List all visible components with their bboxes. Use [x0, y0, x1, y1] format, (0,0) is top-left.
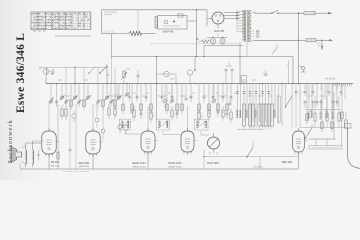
trimmer det2 [171, 84, 173, 99]
wire V2 top [92, 104, 94, 131]
svg-text:UKW VBr: UKW VBr [214, 30, 224, 33]
resistor (dial lamp dropper) [129, 31, 141, 35]
resistor mid at x=134 [133, 106, 135, 110]
resistor at x=227 [226, 84, 228, 110]
resistor at x=182 [181, 84, 183, 110]
IF transformer 2 [157, 119, 170, 130]
trimmer at x=119 [118, 84, 120, 100]
tone switch [306, 128, 313, 138]
capacitor at x=191 [190, 84, 192, 99]
screen supply rail [112, 56, 294, 58]
resistor mid at x=115 [114, 104, 116, 108]
svg-text:(RE 134): (RE 134) [51, 165, 60, 167]
resistor at x=177 [176, 84, 178, 110]
wire V4 top [187, 106, 189, 131]
right link h3 [308, 138, 336, 140]
pot mid at x=120 [119, 122, 121, 125]
resistor at x=71 [70, 84, 72, 106]
cap pair above bus [225, 68, 228, 70]
wire V1 cathode [48, 155, 50, 169]
coil at x=237.5 [237, 84, 239, 118]
band switch caps [236, 91, 239, 93]
right link h1 [305, 109, 340, 111]
pot mid at x=126 [125, 123, 127, 126]
resistor mid at x=209 [208, 106, 210, 110]
right column coils [308, 112, 310, 119]
wire IF2 to V4 [162, 132, 164, 135]
resistor at x=103 [102, 84, 104, 106]
svg-text:REN 1821: REN 1821 [78, 162, 90, 165]
switch at x=285.5 [285, 84, 287, 107]
resistor at x=115 [114, 84, 116, 106]
capacitor at x=111 [110, 84, 112, 104]
wires output [310, 138, 334, 140]
resistor at x=322 [321, 84, 323, 128]
dial lamps [211, 39, 216, 44]
wire V3 top [147, 106, 149, 131]
mains voltage taps [252, 11, 255, 13]
power transformer [245, 10, 247, 42]
trimmer at x=62 [61, 84, 63, 100]
trimmer at x=107 [106, 84, 108, 100]
wire V5 down [203, 150, 205, 169]
svg-text:RE 604: RE 604 [51, 161, 60, 164]
resistor at x=123 [122, 84, 124, 110]
resistor at x=342 [341, 84, 343, 118]
resistor at x=332 [331, 84, 333, 128]
capacitor mid at x=227 [226, 110, 228, 113]
wire V2 cathode [92, 155, 94, 169]
coil at x=327 [326, 84, 328, 118]
wire V6 cathode [298, 152, 300, 169]
switch bank at x=278.8 [278, 84, 280, 124]
right column caps row2 [304, 100, 307, 102]
speaker wiring [22, 146, 26, 148]
resistor at x=250 [249, 84, 251, 122]
anode supply line with fuse Si2 [255, 39, 299, 41]
capacitor at x=172 [171, 84, 173, 99]
resistor at x=259.4 [258, 84, 260, 122]
transformer primary taps [238, 11, 242, 13]
component above bus [241, 76, 247, 83]
right link h2 [300, 127, 344, 129]
cord entry box [345, 124, 352, 129]
resistor at x=262.6 [262, 84, 264, 126]
coil at x=275 [274, 84, 276, 118]
resistor above bus [189, 76, 191, 84]
power line (heater feed) with fuse Si1 [255, 12, 272, 14]
dial drive frame [101, 10, 103, 34]
capacitor at x=204 [203, 84, 205, 99]
potentiometer P1 [123, 78, 125, 84]
resistor at x=268.6 [268, 84, 270, 126]
resistor mid at x=109 [108, 104, 110, 108]
ground marks [63, 170, 65, 172]
capacitor at x=56.5 [56, 84, 58, 104]
resistor mid at x=223 [222, 106, 224, 110]
faint heater line [150, 43, 240, 45]
resistor at x=244 [243, 84, 245, 122]
resistor mid at x=231 [230, 108, 232, 112]
wire V1 top [48, 104, 50, 131]
IF transformer 3 [195, 119, 209, 130]
tuning arrows [48, 97, 53, 102]
switch S2 [247, 147, 253, 157]
circle x103 [102, 106, 104, 129]
oscillator coupling [157, 73, 164, 75]
trimmer at x=75 [74, 84, 76, 100]
coil at x=240.6 [240, 84, 242, 118]
antenna line [39, 66, 107, 68]
resistor at x=265.6 [265, 84, 267, 122]
trimmer at x=51 [50, 84, 52, 104]
mains cord [348, 128, 360, 169]
svg-text:(REN 904): (REN 904) [79, 166, 90, 168]
output choke L2 [33, 150, 34, 164]
resistor at x=199 [198, 84, 200, 110]
svg-text:(+4,6V+0): (+4,6V+0) [325, 78, 335, 80]
coil at x=312 [311, 84, 313, 118]
svg-text:RGN 1064: RGN 1064 [207, 162, 219, 165]
phono jack [302, 66, 305, 69]
svg-text:RES 964: RES 964 [282, 160, 293, 164]
resistor at x=167 [166, 84, 168, 110]
resistor at x=307 [306, 84, 308, 120]
capacitor mid at x=141 [140, 110, 142, 113]
capacitor mid at x=218 [217, 108, 219, 111]
capacitor at x=223 [222, 84, 224, 99]
output choke L1 [26, 150, 27, 164]
svg-text:UKW-VBr: UKW-VBr [163, 31, 174, 34]
wire (mains drop) [298, 13, 300, 84]
resistor mid at x=62 [61, 105, 63, 109]
right column caps row1 [295, 90, 298, 92]
loudspeaker [11, 147, 22, 163]
capacitor at x=146 [145, 84, 147, 99]
capacitor mid at x=177 [176, 110, 178, 113]
trimmer at x=88 [87, 84, 89, 100]
chassis bus [46, 83, 353, 85]
table caption marks [33, 30, 36, 32]
wire x76 [75, 104, 77, 169]
coil at x=247 [246, 84, 248, 118]
wire IF1 to V3 [124, 132, 126, 135]
capacitor at x=137 [136, 84, 138, 99]
wire (ant) [74, 67, 76, 84]
faint annotations [126, 68, 130, 70]
resistor at x=218 [217, 84, 219, 110]
control box [158, 16, 188, 30]
capacitor at x=98 [97, 84, 99, 104]
wire at x=282 [281, 84, 283, 126]
ground return line [20, 168, 299, 170]
tube V6 RES964 [293, 131, 305, 152]
band switch bottom rail [237, 128, 263, 130]
resistor at x=209 [208, 84, 210, 110]
tube V5 diode [208, 137, 220, 149]
waveband switch 2 [89, 67, 95, 73]
resistor at x=271.9 [271, 84, 273, 122]
resistor at x=141 [140, 84, 142, 110]
rectifier tube RGN1064 [212, 12, 224, 24]
wire V3 cathode [147, 152, 149, 169]
resistor mid at x=172 [171, 106, 173, 110]
tube V1 RENS1264 [42, 131, 56, 154]
wire below table [55, 35, 91, 37]
tube V3 RENS1254 [141, 131, 155, 152]
wire right of V1 [57, 104, 59, 169]
output terminal strip [309, 146, 342, 149]
svg-text:RENS 1264: RENS 1264 [132, 162, 146, 165]
diode above bus [272, 48, 277, 54]
wire x70 [69, 104, 71, 148]
capacitor at x=337 [336, 84, 338, 104]
svg-text:(RENS 1224): (RENS 1224) [132, 166, 145, 168]
right resistor [345, 120, 347, 128]
dial data table [31, 12, 91, 30]
capacitor at x=213 [212, 84, 214, 99]
IF transformer 1 [120, 119, 131, 130]
antenna coil [43, 69, 49, 75]
resistor at x=132 [131, 84, 133, 110]
resistor at x=84 [83, 84, 85, 106]
value texts [133, 92, 136, 94]
svg-text:Eswe 346/346 L: Eswe 346/346 L [15, 33, 27, 113]
resistor at x=253 [252, 84, 254, 122]
bus junction dots [56, 83, 57, 84]
ground symbol above bus [263, 73, 268, 75]
capacitor at x=79 [78, 84, 80, 104]
svg-text:Schaltbild: Schaltbild [253, 166, 263, 169]
AVC feed wires [65, 67, 67, 84]
resistor at x=151 [150, 84, 152, 110]
trimmer det1 [164, 84, 166, 99]
right column stubs [291, 84, 293, 90]
resistor mid at x=66 [65, 105, 67, 109]
tube V4 RENS1264 [181, 131, 194, 152]
pot mid at x=74 [73, 111, 75, 114]
resistor mid at x=151 [150, 108, 152, 112]
capacitor at x=66 [65, 84, 67, 104]
capacitor at x=231 [230, 84, 232, 99]
trimmer at x=127 [126, 84, 128, 97]
waveband switch [100, 67, 107, 74]
second level circles [95, 118, 99, 122]
det caps [128, 95, 131, 97]
coil at x=256 [255, 84, 257, 118]
trimmer det3 [213, 84, 215, 99]
wire IF3 to V5 [200, 132, 202, 136]
tube V2 RENS1264 [86, 131, 100, 154]
svg-text:RENS 1264: RENS 1264 [168, 162, 182, 165]
capacitor above bus [137, 74, 140, 76]
capacitor at x=162 [161, 84, 163, 99]
resistor mid at x=199 [198, 108, 200, 112]
svg-text:(RENS 1234): (RENS 1234) [168, 166, 181, 168]
wire x288 [288, 60, 290, 84]
svg-text:4V: 4V [196, 39, 199, 41]
capacitor at x=317 [316, 84, 318, 104]
